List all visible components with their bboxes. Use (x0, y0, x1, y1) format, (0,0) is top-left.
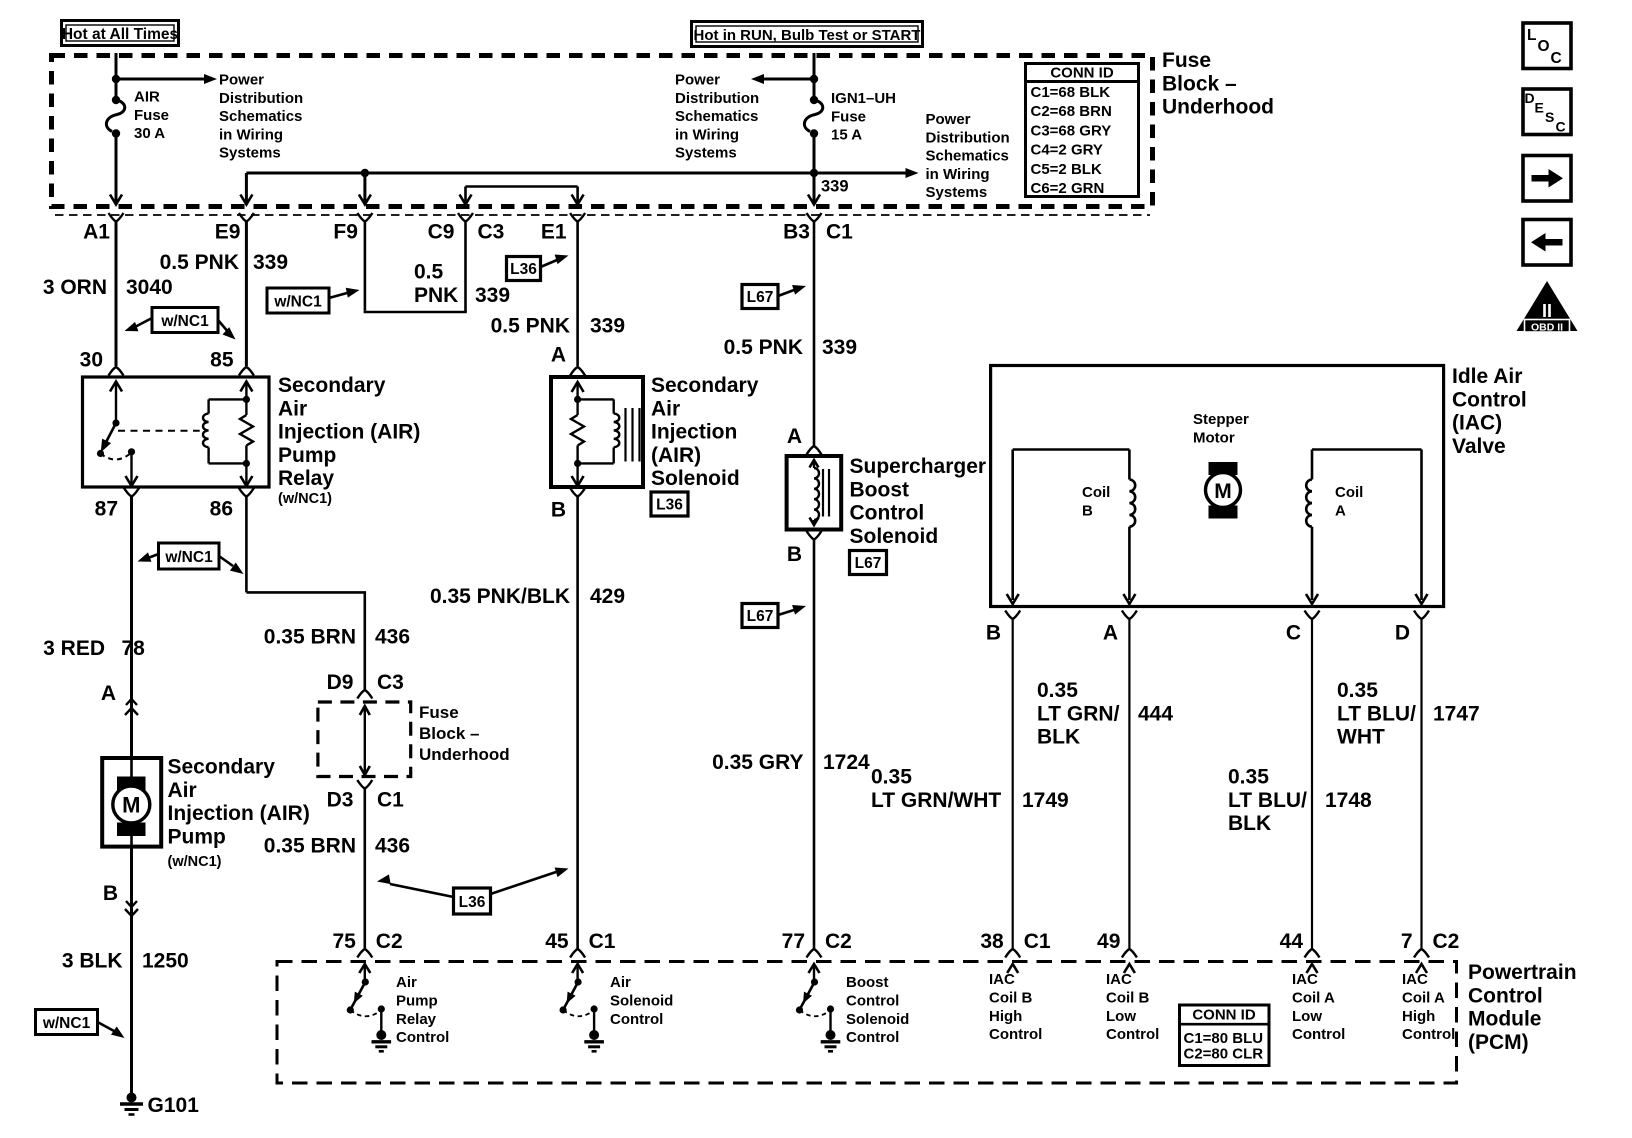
svg-text:Control: Control (610, 1011, 663, 1028)
svg-text:E: E (1535, 100, 1544, 116)
svg-text:Coil: Coil (1082, 484, 1110, 501)
node: inline connector at pump B (103, 846, 138, 916)
label: Hot in RUN, Bulb Test or START (692, 22, 923, 47)
svg-text:Distribution: Distribution (926, 129, 1010, 146)
svg-text:1724: 1724 (823, 751, 870, 774)
svg-text:CONN ID: CONN ID (1050, 65, 1114, 82)
svg-text:3 BLK: 3 BLK (62, 950, 123, 973)
svg-text:Schematics: Schematics (675, 108, 758, 125)
label: stepper motor (1193, 411, 1249, 446)
label: w/NC1 callout (ground wire) (36, 1010, 128, 1043)
svg-text:Underhood: Underhood (419, 745, 510, 764)
CONN ID table (PCM) (1178, 1005, 1269, 1066)
svg-text:Underhood: Underhood (1162, 96, 1274, 119)
svg-text:85: 85 (210, 349, 234, 372)
svg-text:0.5 PNK: 0.5 PNK (160, 251, 239, 274)
label: PCM function (Boost Control Solenoid Control) (846, 974, 909, 1046)
fuse: AIR Fuse 30 A (106, 89, 169, 143)
svg-text:A: A (1335, 502, 1346, 519)
PCM driver switch for pin 45 (560, 964, 598, 1031)
node: connector A1 (83, 213, 123, 244)
svg-text:(w/NC1): (w/NC1) (168, 854, 222, 870)
node: connector E1 (541, 213, 585, 244)
wire: A1 fuse output to fuse block edge (110, 134, 122, 205)
svg-text:Relay: Relay (278, 467, 334, 490)
svg-text:339: 339 (475, 284, 510, 307)
label: relay name (278, 374, 420, 507)
svg-text:C1: C1 (589, 930, 616, 953)
svg-text:Motor: Motor (1193, 429, 1235, 446)
node: junction 339 rail at F9 (361, 169, 369, 177)
label: Hot at All Times (62, 21, 179, 46)
label: IAC valve name (1452, 365, 1527, 458)
svg-text:1749: 1749 (1022, 789, 1069, 812)
label: Fuse Block - Underhood (top right) (1162, 49, 1274, 119)
svg-text:WHT: WHT (1337, 726, 1385, 749)
PCM driver switch for pin 75 (347, 964, 385, 1031)
ground inside PCM (pin 75) (372, 1030, 392, 1051)
svg-text:BLK: BLK (1228, 812, 1271, 835)
svg-text:444: 444 (1138, 702, 1173, 725)
fuse: IGN1-UH Fuse 15 A (804, 90, 896, 144)
wire: battery feed into AIR fuse (115, 53, 118, 100)
svg-text:339: 339 (253, 251, 288, 274)
svg-text:Control: Control (846, 992, 899, 1009)
PCM pin 44 entry arrow (1307, 964, 1318, 973)
svg-text:Control: Control (1106, 1026, 1159, 1043)
svg-text:C3=68 GRY: C3=68 GRY (1031, 122, 1112, 139)
svg-text:Low: Low (1292, 1008, 1322, 1025)
relay armature dashed link (118, 430, 200, 432)
svg-text:Coil A: Coil A (1292, 989, 1335, 1006)
node: supercharger solenoid pin A entry (807, 446, 822, 455)
PCM pin 49 entry arrow (1124, 964, 1135, 973)
node: junction on IGN feed (810, 75, 818, 83)
label: L67 callout (B3 wire) (742, 281, 807, 308)
svg-text:Air: Air (651, 397, 680, 420)
svg-text:LT BLU/: LT BLU/ (1228, 789, 1307, 812)
svg-text:A: A (101, 682, 116, 705)
label: PCM function (IAC Coil A High Control) (1402, 971, 1455, 1043)
svg-text:B: B (551, 499, 566, 522)
svg-text:78: 78 (122, 637, 146, 660)
harness connector boundary (thin dashed line) (55, 214, 1150, 216)
svg-text:0.5 PNK: 0.5 PNK (724, 336, 803, 359)
svg-text:436: 436 (375, 835, 410, 858)
svg-text:339: 339 (821, 178, 849, 196)
svg-text:15 A: 15 A (831, 127, 862, 144)
svg-text:w/NC1: w/NC1 (164, 549, 213, 566)
svg-text:Secondary: Secondary (278, 374, 386, 397)
node: PCM pin 45 C1 (545, 930, 616, 958)
svg-text:0.35: 0.35 (1337, 679, 1378, 702)
label: power distribution schematics (IGN branch) (675, 72, 759, 162)
solenoid: Supercharger Boost Control Solenoid box (787, 456, 842, 530)
PCM: Powertrain Control Module dashed box (277, 962, 1457, 1084)
svg-text:Fuse: Fuse (419, 703, 459, 722)
svg-text:LT GRN/: LT GRN/ (1037, 702, 1120, 725)
wire: 0.35 LT GRN/WHT 1749 (IAC B to PCM 38) (871, 619, 1069, 949)
motor: Secondary Air Injection (AIR) Pump (102, 758, 161, 847)
svg-text:LT BLU/: LT BLU/ (1337, 702, 1416, 725)
svg-text:Systems: Systems (219, 145, 281, 162)
svg-text:AIR: AIR (134, 89, 160, 106)
wire: 339 rail from IGN fuse (813, 134, 816, 174)
svg-text:436: 436 (375, 626, 410, 649)
wire: E9 drop from rail (240, 173, 252, 205)
svg-text:C1: C1 (377, 789, 404, 812)
IAC coil B (1007, 450, 1136, 605)
wire: 3 ORN 3040 (A1 to relay 30) (43, 222, 173, 367)
svg-text:Stepper: Stepper (1193, 411, 1249, 428)
svg-text:B3: B3 (783, 221, 810, 244)
svg-text:Distribution: Distribution (219, 90, 303, 107)
label: pump name (168, 756, 310, 871)
svg-text:IAC: IAC (1292, 971, 1318, 988)
svg-text:0.35 GRY: 0.35 GRY (712, 751, 803, 774)
svg-text:L67: L67 (747, 289, 774, 306)
svg-text:E9: E9 (215, 221, 241, 244)
svg-text:Coil: Coil (1335, 484, 1363, 501)
svg-text:C1=80 BLU: C1=80 BLU (1184, 1030, 1264, 1047)
svg-text:IAC: IAC (989, 971, 1015, 988)
svg-text:Schematics: Schematics (926, 148, 1009, 165)
PCM driver switch for pin 77 (796, 964, 834, 1031)
svg-text:Air: Air (396, 974, 417, 991)
icon: next arrow button (1523, 156, 1571, 202)
label: w/NC1 callout (F9) (267, 285, 361, 313)
svg-text:Control: Control (1468, 984, 1543, 1007)
node: relay pin 85 entry (210, 349, 254, 376)
node: PCM pin 44 (1280, 930, 1320, 958)
svg-text:B: B (103, 882, 118, 905)
svg-text:C2: C2 (1433, 930, 1460, 953)
node: junction 339 rail at IGN wire (810, 169, 818, 177)
node: relay pin 86 exit (210, 488, 254, 521)
node: connector F9 (333, 213, 372, 244)
svg-text:30 A: 30 A (134, 125, 165, 142)
svg-text:3 RED: 3 RED (43, 637, 105, 660)
svg-text:A: A (1103, 622, 1118, 645)
svg-text:C: C (1556, 119, 1566, 135)
svg-text:C3: C3 (377, 671, 404, 694)
svg-text:II: II (1542, 301, 1552, 321)
svg-text:0.5 PNK: 0.5 PNK (491, 315, 570, 338)
wire: 0.35 BRN 436 (relay 86 to fuse block D9) (246, 497, 410, 691)
svg-text:C1: C1 (826, 221, 853, 244)
svg-text:LT GRN/WHT: LT GRN/WHT (871, 789, 1001, 812)
label: AIR solenoid name (651, 374, 759, 490)
svg-text:Powertrain: Powertrain (1468, 961, 1577, 984)
ground inside PCM (pin 45) (584, 1030, 604, 1051)
svg-text:in Wiring: in Wiring (675, 126, 739, 143)
wire: 0.35 BRN 436 (D3 to PCM 75) (264, 789, 410, 950)
AIR solenoid core lines (626, 408, 640, 462)
svg-text:C: C (1551, 50, 1562, 67)
svg-text:A1: A1 (83, 221, 110, 244)
svg-text:Block –: Block – (1162, 72, 1237, 95)
svg-text:Boost: Boost (850, 478, 910, 501)
wire: IGN feed into IGN1-UH fuse (813, 53, 816, 100)
PCM pin 7 entry arrow (1416, 964, 1427, 973)
svg-text:1748: 1748 (1325, 789, 1372, 812)
label: L36 tag under solenoid label (651, 492, 688, 516)
svg-text:1747: 1747 (1433, 702, 1480, 725)
svg-text:C3: C3 (478, 221, 505, 244)
svg-text:IGN1–UH: IGN1–UH (831, 90, 896, 107)
svg-text:BLK: BLK (1037, 726, 1080, 749)
node: supercharger solenoid pin B exit (787, 531, 822, 566)
relay: Secondary Air Injection (AIR) Pump Relay box (83, 377, 270, 487)
node: IAC pin A (1103, 611, 1137, 645)
wire: B3 drop from rail to fuse block edge (808, 173, 820, 205)
svg-text:L36: L36 (656, 497, 683, 514)
svg-text:75: 75 (332, 930, 356, 953)
icon: LOC button (1523, 23, 1571, 69)
wire: F9 to C9 U-loop (0.5 PNK) (364, 222, 510, 313)
svg-text:3 ORN: 3 ORN (43, 276, 107, 299)
label: L67 tag under supercharger label (850, 551, 887, 575)
node: connector D3 / C1 (fuse block) (327, 780, 405, 812)
svg-text:Secondary: Secondary (168, 756, 276, 779)
label: 339 circuit at rail (821, 178, 849, 196)
svg-text:C2=80 CLR: C2=80 CLR (1184, 1046, 1264, 1063)
svg-text:Coil B: Coil B (1106, 989, 1149, 1006)
svg-text:Control: Control (396, 1029, 449, 1046)
svg-text:Solenoid: Solenoid (846, 1011, 909, 1028)
label: L67 callout (lower) (742, 601, 807, 627)
svg-text:Hot in RUN, Bulb Test or START: Hot in RUN, Bulb Test or START (694, 27, 921, 44)
svg-text:Low: Low (1106, 1008, 1136, 1025)
svg-text:PNK: PNK (414, 284, 458, 307)
wire: 3 BLK 1250 (pump B to G101) (62, 916, 189, 1096)
svg-text:G101: G101 (148, 1094, 200, 1117)
svg-text:IAC: IAC (1402, 971, 1428, 988)
node: connector C9 / C3 (428, 213, 505, 244)
node: connector B3 / C1 (783, 213, 853, 244)
svg-text:IAC: IAC (1106, 971, 1132, 988)
node: connector D9 / C3 (fuse block) (327, 671, 404, 699)
wire: 0.35 PNK/BLK 429 (AIR solenoid B to PCM 45) (430, 497, 625, 950)
svg-text:38: 38 (980, 930, 1004, 953)
svg-text:0.35 BRN: 0.35 BRN (264, 835, 356, 858)
svg-text:339: 339 (822, 336, 857, 359)
node: PCM pin 75 C2 (332, 930, 402, 958)
label: supercharger solenoid name (850, 455, 987, 548)
svg-text:F9: F9 (333, 221, 358, 244)
wire: 3 RED 78 (relay 87 to pump A) (43, 497, 145, 706)
svg-text:1250: 1250 (142, 950, 189, 973)
svg-text:Power: Power (675, 72, 720, 89)
relay coil (203, 396, 250, 467)
node: relay pin 30 entry (80, 349, 124, 376)
svg-text:Hot at All Times: Hot at All Times (62, 26, 178, 43)
node: PCM pin 38 C1 (980, 930, 1051, 958)
wire: 0.35 GRY 1724 (supercharger B to PCM 77) (712, 540, 870, 950)
svg-text:L36: L36 (510, 261, 537, 278)
node: AIR solenoid pin B exit (551, 488, 585, 522)
wire: F9 drop from rail (359, 173, 371, 205)
svg-text:B: B (1082, 502, 1093, 519)
svg-text:Boost: Boost (846, 974, 889, 991)
svg-text:L67: L67 (747, 608, 774, 625)
svg-text:L36: L36 (459, 894, 486, 911)
wire: 0.5 PNK 339 (E9 to relay 85) (160, 222, 288, 367)
svg-text:Secondary: Secondary (651, 374, 759, 397)
svg-text:Control: Control (1292, 1026, 1345, 1043)
svg-text:C2=68 BRN: C2=68 BRN (1031, 103, 1112, 120)
svg-text:C2: C2 (376, 930, 403, 953)
wire: C9 to E1 bridge inside fuse block (460, 187, 584, 205)
CONN ID table (fuse block) (1024, 64, 1140, 198)
svg-text:High: High (989, 1008, 1022, 1025)
svg-text:w/NC1: w/NC1 (160, 313, 209, 330)
wire: 0.5 PNK 339 (B3 to supercharger solenoid A) (724, 222, 857, 449)
svg-text:30: 30 (80, 349, 103, 372)
svg-text:Valve: Valve (1452, 435, 1506, 458)
svg-text:C1=68 BLK: C1=68 BLK (1031, 84, 1111, 101)
label: L36 callout (E1) (507, 251, 570, 281)
svg-text:D9: D9 (327, 671, 354, 694)
svg-text:Power: Power (926, 111, 971, 128)
svg-text:Systems: Systems (675, 145, 737, 162)
svg-text:M: M (122, 793, 140, 818)
relay switch (30 to 87) (96, 382, 137, 487)
icon: back arrow button (1523, 220, 1571, 266)
svg-text:Coil A: Coil A (1402, 989, 1445, 1006)
svg-text:Relay: Relay (396, 1011, 437, 1028)
svg-text:Injection: Injection (651, 421, 737, 444)
wire: 0.35 LT BLU/BLK 1748 (IAC C to PCM 44) (1228, 619, 1372, 949)
label: Fuse Block - Underhood (pass-through) (419, 703, 510, 764)
svg-text:C4=2 GRY: C4=2 GRY (1031, 142, 1103, 159)
svg-text:D: D (1395, 622, 1410, 645)
svg-text:B: B (787, 543, 802, 566)
relay resistor (85-86) (240, 382, 253, 487)
svg-text:0.35: 0.35 (871, 766, 912, 789)
svg-text:Air: Air (278, 397, 307, 420)
svg-text:L67: L67 (855, 555, 882, 572)
svg-text:High: High (1402, 1008, 1435, 1025)
node: PCM pin 77 C2 (782, 930, 852, 958)
svg-text:87: 87 (95, 498, 118, 521)
svg-text:C: C (1286, 622, 1301, 645)
svg-text:Block –: Block – (419, 724, 479, 743)
wire: branch to power distribution (left arrow) (751, 74, 814, 84)
node: junction on A1 feed (112, 75, 120, 83)
fuse block underhood (pass-through, dashed box) (318, 702, 411, 777)
svg-text:(IAC): (IAC) (1452, 412, 1502, 435)
label: w/NC1 callout (A1/E9) (123, 308, 239, 344)
label: w/NC1 callout (86/87 wires) (136, 543, 247, 578)
svg-text:M: M (1214, 480, 1232, 503)
svg-text:Systems: Systems (926, 184, 988, 201)
svg-text:Coil B: Coil B (989, 989, 1032, 1006)
svg-text:C9: C9 (428, 221, 455, 244)
svg-text:Solenoid: Solenoid (610, 992, 673, 1009)
IAC coil A (1306, 450, 1428, 605)
label: power distribution schematics (A1 branch) (219, 72, 303, 162)
svg-text:in Wiring: in Wiring (926, 166, 990, 183)
svg-text:D3: D3 (327, 789, 354, 812)
svg-text:L: L (1527, 27, 1536, 44)
svg-text:O: O (1538, 38, 1550, 55)
supercharger solenoid core lines (823, 469, 829, 517)
svg-text:(AIR): (AIR) (651, 444, 701, 467)
svg-text:C2: C2 (825, 930, 852, 953)
svg-text:Schematics: Schematics (219, 108, 302, 125)
wire: branch to power distribution (left) (116, 74, 217, 84)
label: PCM function (Air Pump Relay Control) (396, 974, 449, 1046)
label: PCM function (IAC Coil A Low Control) (1292, 971, 1345, 1043)
svg-text:0.35: 0.35 (1228, 766, 1269, 789)
wire: 339 horizontal rail (246, 172, 906, 175)
solenoid: Secondary Air Injection (AIR) Solenoid box (551, 377, 643, 487)
svg-text:49: 49 (1097, 930, 1120, 953)
svg-text:Solenoid: Solenoid (651, 467, 740, 490)
svg-text:Injection (AIR): Injection (AIR) (278, 421, 420, 444)
svg-text:77: 77 (782, 930, 805, 953)
node: inline connector at pump A (125, 699, 138, 758)
svg-text:in Wiring: in Wiring (219, 126, 283, 143)
svg-text:Pump: Pump (396, 992, 438, 1009)
svg-text:C1: C1 (1024, 930, 1051, 953)
ground inside PCM (pin 77) (821, 1030, 841, 1051)
svg-text:3040: 3040 (126, 276, 173, 299)
svg-text:w/NC1: w/NC1 (42, 1015, 91, 1032)
svg-text:Solenoid: Solenoid (850, 525, 939, 548)
node: IAC pin D (1395, 611, 1429, 645)
fuse block underhood boundary (dashed) (52, 56, 1153, 207)
svg-text:B: B (986, 622, 1001, 645)
label: power distribution schematics (339 rail) (926, 111, 1010, 201)
wire: 0.5 PNK 339 (E1 to AIR solenoid A) (491, 222, 625, 367)
label: PCM function (IAC Coil B High Control) (989, 971, 1042, 1043)
wire: 0.35 LT GRN/BLK 444 (IAC A to PCM 49) (1037, 619, 1173, 949)
svg-text:Fuse: Fuse (134, 107, 169, 124)
label: PCM name (1468, 961, 1577, 1054)
svg-text:Pump: Pump (278, 444, 336, 467)
svg-text:OBD II: OBD II (1531, 322, 1563, 334)
AIR solenoid coil (578, 399, 620, 463)
node: connector E9 (215, 213, 254, 244)
svg-text:Fuse: Fuse (1162, 49, 1211, 72)
svg-text:Idle Air: Idle Air (1452, 365, 1522, 388)
svg-text:A: A (787, 425, 802, 448)
svg-text:Control: Control (850, 502, 925, 525)
node: IAC pin B (986, 611, 1020, 645)
svg-text:Fuse: Fuse (831, 108, 866, 125)
svg-text:Control: Control (1452, 388, 1527, 411)
svg-text:(w/NC1): (w/NC1) (278, 491, 332, 507)
svg-text:Supercharger: Supercharger (850, 455, 987, 478)
svg-text:D: D (1525, 90, 1535, 106)
svg-text:86: 86 (210, 498, 233, 521)
svg-text:0.35: 0.35 (1037, 679, 1078, 702)
svg-text:0.35 PNK/BLK: 0.35 PNK/BLK (430, 585, 570, 608)
svg-text:45: 45 (545, 930, 569, 953)
wire through fuse block D9-D3 (360, 706, 370, 775)
svg-text:Control: Control (1402, 1026, 1455, 1043)
node: relay pin 87 exit (95, 488, 139, 521)
svg-text:Distribution: Distribution (675, 90, 759, 107)
svg-text:(PCM): (PCM) (1468, 1031, 1529, 1054)
svg-text:44: 44 (1280, 930, 1304, 953)
wire: arrow to power distribution (right) (906, 168, 919, 178)
node: PCM pin 49 (1097, 930, 1137, 958)
node: PCM pin 7 C2 (1401, 930, 1460, 958)
svg-text:S: S (1545, 109, 1554, 125)
